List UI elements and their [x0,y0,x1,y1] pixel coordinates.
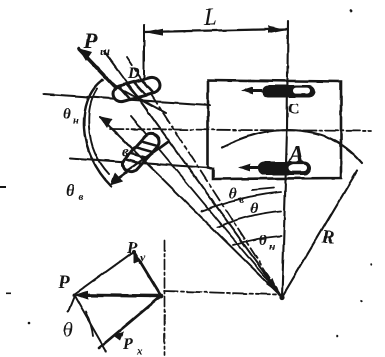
svg-text:н: н [269,242,275,253]
svg-text:A: A [286,142,304,168]
svg-text:в: в [239,195,244,206]
svg-text:х: х [136,346,143,357]
svg-text:θ: θ [63,107,71,123]
svg-text:θ: θ [229,186,237,202]
svg-text:ш: ш [100,44,110,58]
svg-text:у: у [138,250,146,264]
svg-text:θ: θ [66,181,75,200]
svg-text:D: D [127,65,140,82]
svg-text:Р: Р [122,336,133,353]
svg-text:н: н [73,116,79,127]
svg-text:θ: θ [63,319,73,341]
svg-text:C: C [288,101,300,118]
svg-text:θ: θ [250,201,258,217]
svg-text:P: P [57,272,70,293]
svg-text:θ: θ [259,233,267,249]
svg-text:Р: Р [126,238,138,257]
svg-text:Р: Р [83,28,98,53]
svg-text:R: R [321,227,335,248]
svg-text:L: L [203,5,217,31]
svg-text:в: в [78,191,83,203]
svg-text:в: в [122,144,129,160]
